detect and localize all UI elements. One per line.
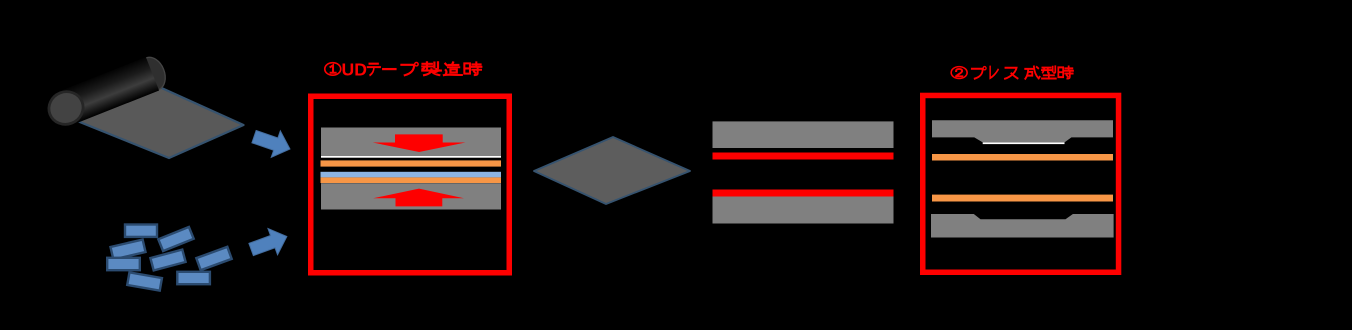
box2 top gray mold (protrusion down) (932, 120, 1113, 142)
box1 white line under top layer (321, 156, 501, 158)
box2 orange layer 2 (932, 195, 1113, 202)
pellet 3 (110, 240, 145, 260)
middle stack red layer 1 (713, 153, 894, 160)
middle stack red layer 2 (713, 190, 894, 197)
diamond sheet (middle) (534, 137, 690, 204)
middle stack gray layer 1 (713, 121, 894, 148)
box1 orange layer 1 (321, 160, 502, 166)
box1 blue layer (321, 172, 502, 178)
svg-text:UD: UD (342, 60, 367, 80)
label 1: (1)UD tape manufacturing time (325, 60, 482, 80)
pellet 6 (196, 247, 231, 270)
blue arrow 2 (pellets to box, pointing right-up) (246, 223, 291, 262)
red frame box 2 (923, 95, 1119, 272)
pellet 1 (125, 225, 157, 237)
box1 red down arrow (373, 134, 466, 152)
box1 red up arrow (373, 189, 464, 207)
red frame box 1 (311, 96, 510, 273)
box2 white line under protrusion (983, 142, 1065, 144)
middle stack gray layer 2 (713, 197, 894, 224)
blue arrow 1 (roll to box, pointing right-down) (249, 123, 294, 162)
box2 orange layer 1 (932, 154, 1113, 161)
box1 bottom gray layer (321, 183, 501, 209)
pellet 2 (158, 227, 193, 251)
pellet 7 (127, 272, 162, 290)
pellet 4 (107, 258, 140, 270)
tape roll cylinder body (59, 53, 170, 125)
UD tape sheet (gray parallelogram) (79, 85, 244, 158)
tape roll end cap (44, 87, 88, 130)
box1 top gray layer (321, 128, 501, 157)
pellet 5 (150, 250, 185, 271)
label 2: (2)press molding time (951, 66, 1073, 78)
pellet 8 (177, 272, 210, 284)
box2 bottom gray mold (recess down) (931, 214, 1114, 238)
box1 orange layer 2 (321, 177, 502, 183)
